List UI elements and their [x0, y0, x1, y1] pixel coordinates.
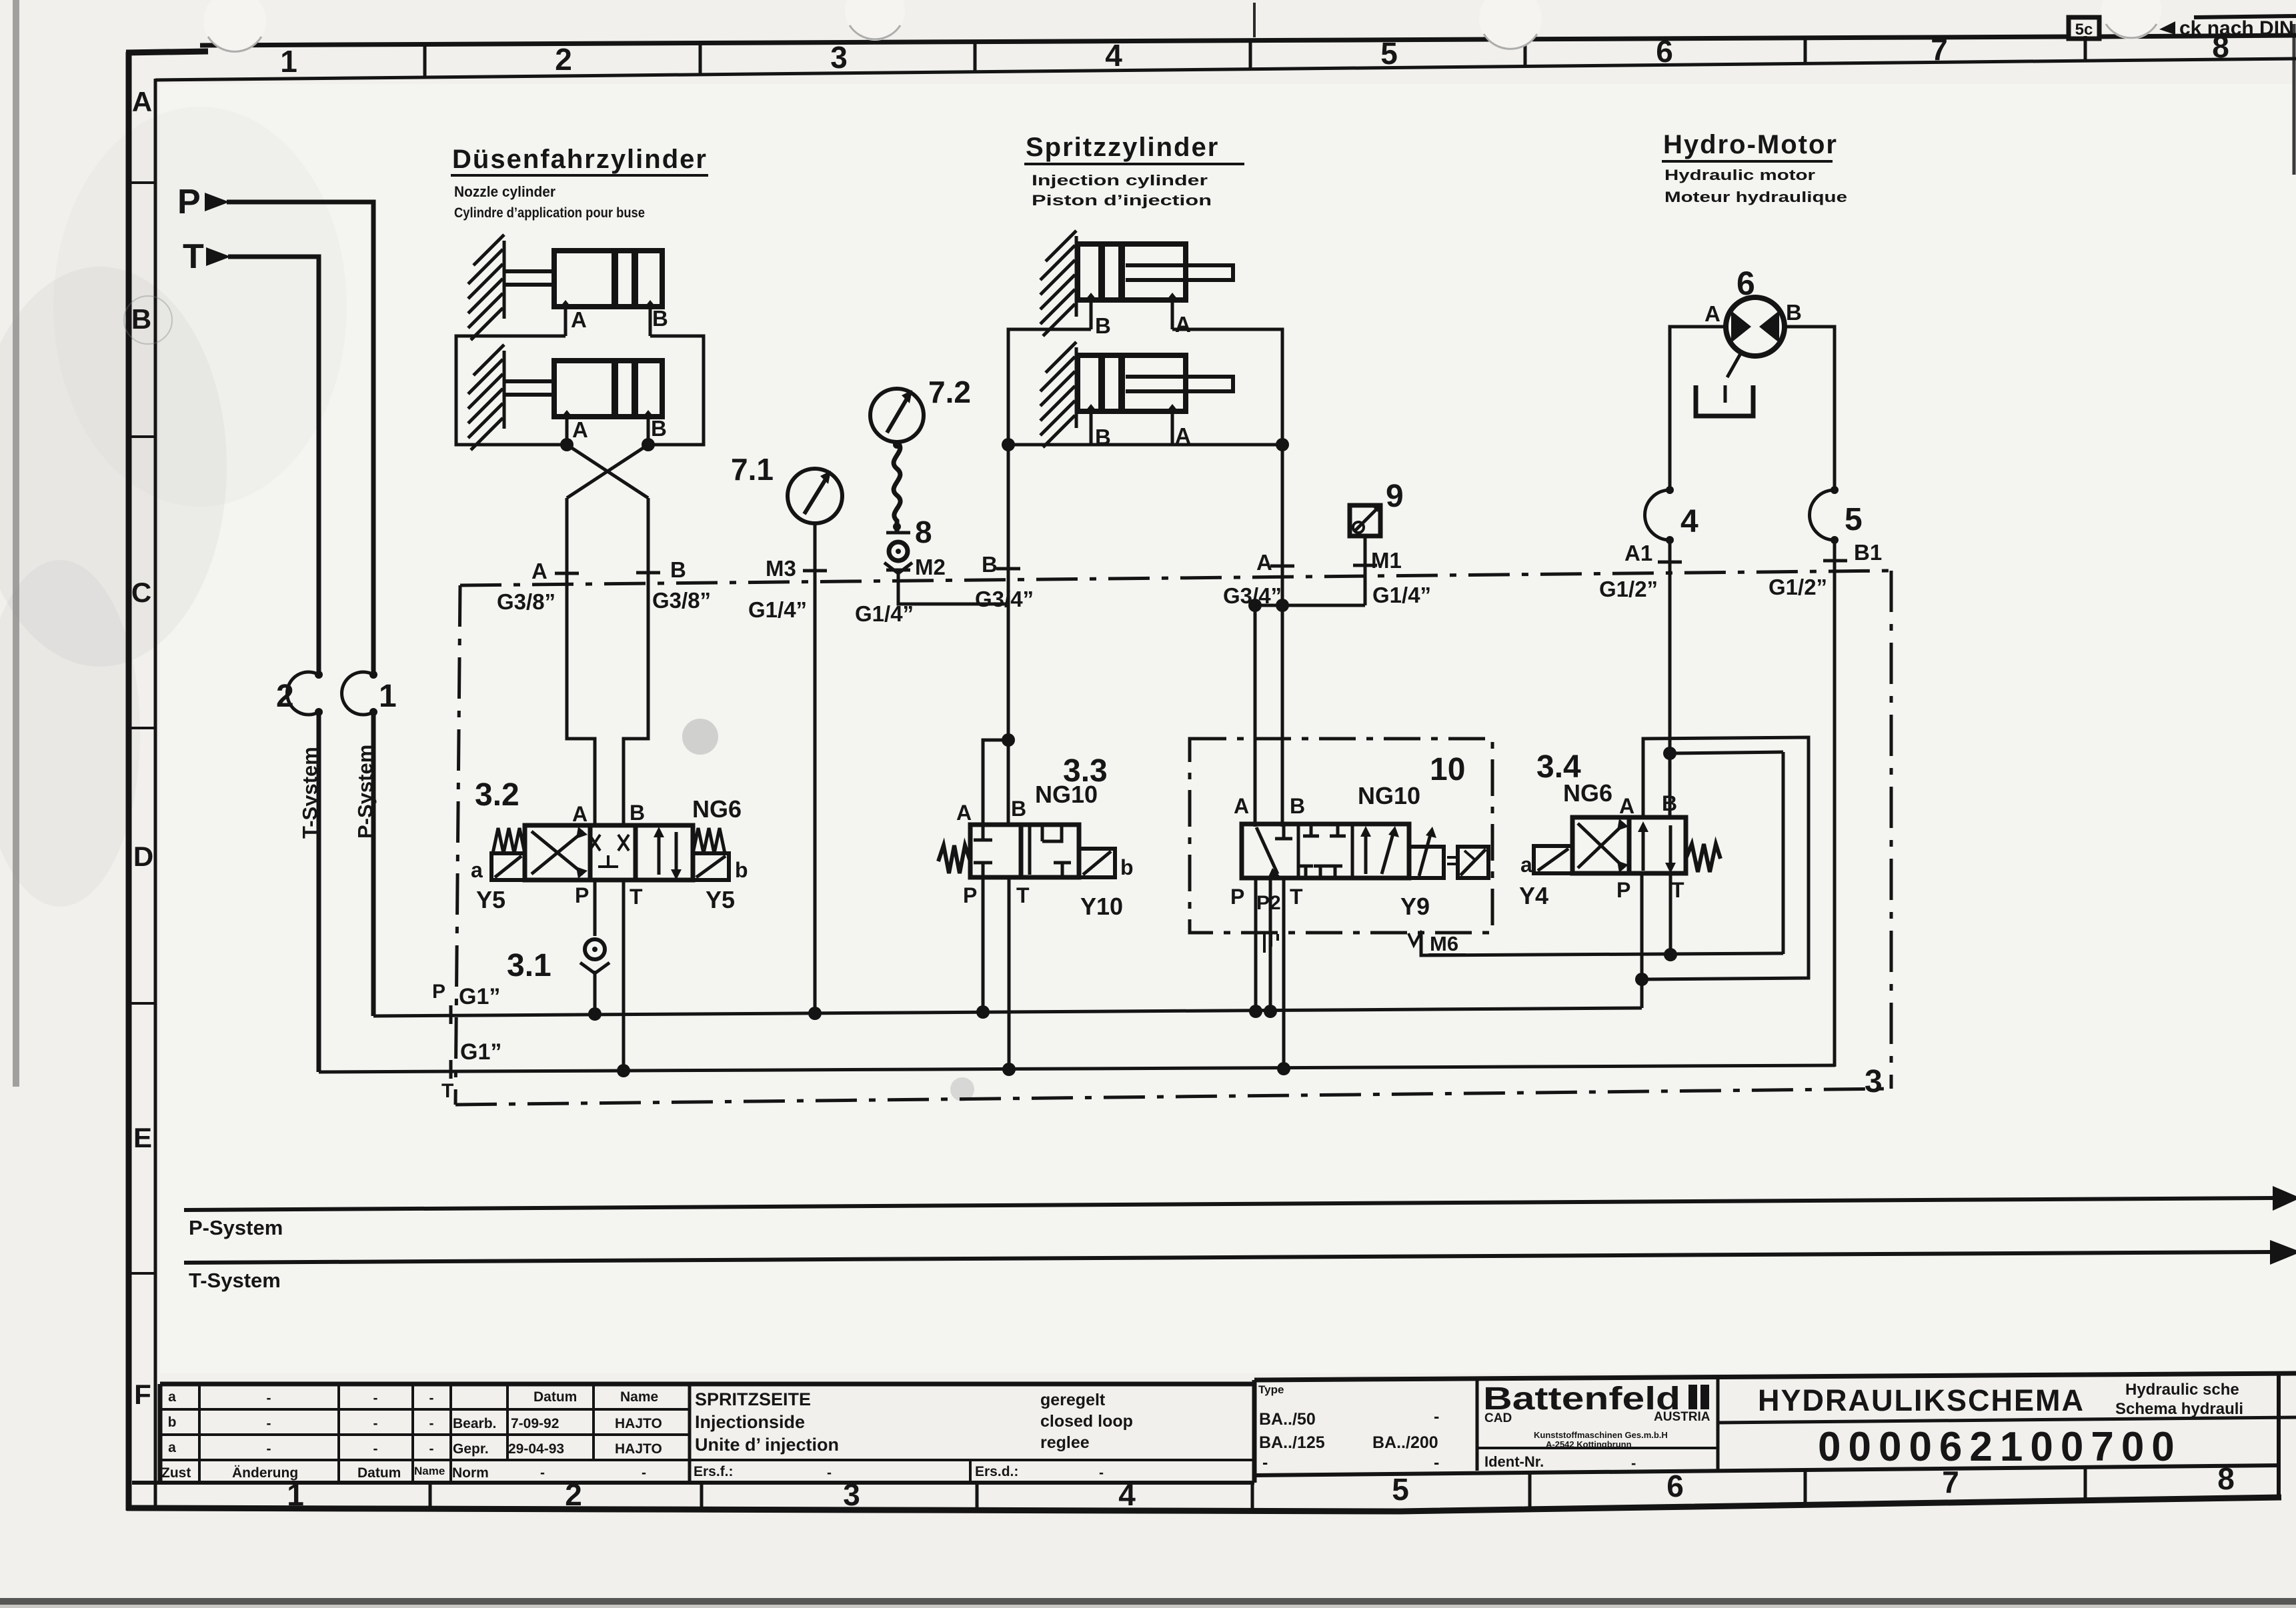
valve 10 dash-dot enclosure — [1190, 739, 1492, 933]
valve 3.3 body — [970, 825, 1021, 877]
svg-text:10: 10 — [1430, 752, 1465, 787]
wire loop A1 to feedback line — [1670, 752, 1783, 753]
5c box top right — [2069, 17, 2099, 39]
svg-text:3: 3 — [1865, 1064, 1883, 1099]
motor drain line — [1727, 351, 1742, 377]
wire riser B G3/4 down to valve 3.3 — [1007, 445, 1010, 740]
svg-text:2: 2 — [565, 1477, 582, 1512]
svg-text:5c: 5c — [2075, 21, 2093, 39]
injection cylinder 1 wall anchor — [1040, 231, 1076, 336]
valve 3.2 spring left — [493, 828, 525, 853]
manifold boundary left edge — [455, 585, 460, 1105]
gray scanner smudges — [0, 267, 227, 667]
valve 3.2 right cell arrows — [658, 832, 661, 875]
nozzle cylinder 1 barrel — [554, 251, 662, 307]
svg-text:G1/4”: G1/4” — [748, 597, 807, 622]
svg-text:HAJTO: HAJTO — [615, 1416, 662, 1431]
brighter drawing area — [160, 84, 2296, 1373]
wire T arrow to corner — [228, 257, 319, 673]
frame right vertical (title block area) — [2277, 1375, 2281, 1499]
svg-text:A1: A1 — [1624, 541, 1652, 565]
svg-text:T-System: T-System — [298, 747, 321, 839]
left table texts — [161, 1389, 1104, 1481]
svg-text:B: B — [1290, 794, 1305, 818]
svg-text:A: A — [132, 86, 152, 117]
svg-text:P2: P2 — [1256, 892, 1281, 914]
svg-text:A: A — [1175, 312, 1191, 337]
svg-text:3: 3 — [843, 1477, 860, 1512]
svg-text:B: B — [982, 552, 998, 577]
wire riser A G3/8 — [567, 498, 595, 827]
svg-text:CAD: CAD — [1484, 1411, 1512, 1425]
title block bottom lines — [132, 1481, 1254, 1485]
nozzle cylinder 2 port notches — [561, 410, 572, 417]
wire check valve to P line — [594, 971, 597, 1014]
svg-text:-: - — [1631, 1455, 1636, 1471]
svg-text:HYDRAULIKSCHEMA: HYDRAULIKSCHEMA — [1758, 1383, 2085, 1417]
valve 3.4 left cell crossed arrows — [1578, 823, 1624, 868]
valve 3.2 solenoid a — [491, 853, 525, 880]
svg-text:-: - — [827, 1465, 832, 1481]
svg-text:8: 8 — [2217, 1461, 2235, 1496]
svg-text:Kunststoffmaschinen Ges.m.b.H: Kunststoffmaschinen Ges.m.b.H — [1534, 1430, 1668, 1440]
wire to valve 3.3 B port — [1007, 740, 1010, 827]
junction node B-net left — [1002, 438, 1015, 451]
svg-text:7.2: 7.2 — [928, 375, 971, 409]
svg-text:T: T — [183, 237, 204, 276]
port tick M2 G1/4 — [886, 569, 910, 572]
svg-text:G1/4”: G1/4” — [1372, 583, 1431, 607]
svg-text:Datum: Datum — [357, 1465, 401, 1481]
port tick B1 G1/2 — [1823, 559, 1847, 563]
svg-text:3.1: 3.1 — [507, 948, 551, 983]
svg-text:G1/2”: G1/2” — [1769, 575, 1827, 599]
wire cyl1 B down — [649, 307, 652, 336]
svg-text:6: 6 — [1666, 1469, 1684, 1503]
wire valve 3.4 T down to M6 line — [1669, 873, 1672, 955]
svg-text:-: - — [642, 1465, 646, 1481]
svg-text:a: a — [471, 858, 483, 882]
port tick B G3/8 — [636, 571, 660, 575]
svg-text:-: - — [267, 1416, 271, 1431]
nozzle cylinder 1 piston — [612, 253, 618, 305]
svg-text:5: 5 — [1845, 502, 1863, 537]
svg-text:-: - — [429, 1391, 434, 1406]
svg-text:P: P — [1230, 885, 1244, 909]
hose break 1 on P line — [342, 672, 373, 715]
injection cylinder 2 port notches — [1086, 404, 1096, 411]
injection cylinder 2 wall anchor — [1040, 342, 1076, 447]
svg-text:4: 4 — [1680, 504, 1698, 539]
nozzle cylinder 2 piston rod — [504, 379, 555, 383]
wire valve 10 T to T line — [1282, 878, 1286, 1069]
svg-text:A-2542 Kottingbrunn: A-2542 Kottingbrunn — [1546, 1439, 1632, 1449]
svg-text:B: B — [131, 303, 151, 335]
svg-text:5: 5 — [1380, 36, 1398, 71]
svg-text:Hydraulic sche: Hydraulic sche — [2125, 1381, 2239, 1399]
svg-text:closed loop: closed loop — [1040, 1412, 1133, 1431]
svg-text:a: a — [168, 1440, 176, 1455]
gauge 7.1 — [788, 469, 842, 523]
svg-text:Hydro-Motor: Hydro-Motor — [1663, 130, 1838, 159]
svg-text:2: 2 — [555, 42, 572, 77]
bottom paper edge — [0, 1598, 2296, 1605]
svg-text:ck nach DIN: ck nach DIN — [2179, 17, 2294, 39]
gauge 7.2 — [870, 389, 924, 442]
svg-text:reglee: reglee — [1040, 1433, 1090, 1452]
fold mark top middle — [1253, 3, 1256, 37]
svg-text:4: 4 — [1105, 38, 1122, 73]
valve 10 feedback box — [1458, 847, 1488, 878]
wire item 9 stub to M1 — [1364, 536, 1367, 605]
svg-text:-: - — [1434, 1453, 1439, 1472]
junction node split to valve 3.3 A — [1002, 733, 1015, 747]
wire T line down — [317, 712, 321, 1072]
injection cylinder 2 barrel — [1078, 355, 1186, 411]
svg-text:1: 1 — [280, 44, 297, 79]
svg-text:7: 7 — [1931, 32, 1948, 67]
injection cylinder 1 barrel — [1078, 244, 1186, 300]
svg-text:B: B — [630, 801, 645, 825]
port tick A G3/8 — [555, 572, 579, 575]
svg-text:G3/8”: G3/8” — [652, 588, 711, 613]
wire crossing X below nozzle cylinders — [567, 445, 648, 498]
svg-text:A: A — [1704, 301, 1720, 326]
injection cylinder 2 piston — [1098, 357, 1105, 409]
svg-text:AUSTRIA: AUSTRIA — [1654, 1410, 1710, 1424]
svg-text:b: b — [1120, 855, 1134, 879]
wire valve10 A vertical — [1254, 605, 1257, 827]
valve 3.4 body — [1572, 817, 1629, 873]
svg-text:B: B — [1786, 300, 1802, 325]
P arrow — [205, 193, 229, 211]
hose break 2 on T line — [287, 672, 319, 715]
svg-text:NG10: NG10 — [1035, 781, 1098, 808]
injection cylinder 1 port notches — [1086, 293, 1096, 299]
wire B-net loop right — [650, 336, 704, 445]
svg-text:T: T — [441, 1080, 453, 1102]
coupling 8 ball — [889, 542, 908, 561]
svg-text:a: a — [168, 1389, 176, 1405]
port tick A G3/4 — [1270, 565, 1294, 568]
valve 3.2 center cell blocked symbols — [590, 835, 600, 851]
drain funnel — [1696, 385, 1753, 416]
svg-text:geregelt: geregelt — [1040, 1391, 1106, 1409]
svg-text:-: - — [1434, 1407, 1439, 1426]
outer frame left vertical — [126, 52, 132, 1511]
valve 3.2 body — [525, 825, 590, 880]
svg-text:D: D — [133, 841, 153, 872]
wire cyl2 A down — [565, 417, 569, 445]
nozzle cylinder 1 piston rod — [504, 269, 555, 273]
wire valve 3.2 T down to T line — [622, 880, 626, 1071]
top ruler band top line — [200, 37, 2070, 45]
T-System line — [184, 1252, 2271, 1263]
hydro motor circle item 6 — [1726, 297, 1785, 356]
svg-text:G3/4”: G3/4” — [975, 587, 1034, 611]
svg-text:-: - — [373, 1391, 378, 1406]
svg-text:P: P — [432, 981, 445, 1003]
svg-text:Unite d’ injection: Unite d’ injection — [695, 1435, 839, 1455]
svg-text:6: 6 — [1656, 34, 1673, 69]
svg-text:b: b — [168, 1415, 177, 1430]
port tick M3 G1/4 — [803, 569, 827, 573]
svg-text:Spritzzylinder: Spritzzylinder — [1026, 133, 1219, 162]
valve 10 body — [1242, 824, 1409, 878]
svg-text:BA../125: BA../125 — [1259, 1433, 1325, 1452]
svg-text:1: 1 — [379, 679, 397, 714]
left letter band letters — [131, 86, 153, 1410]
wire P arrow to corner — [227, 202, 373, 673]
svg-text:B: B — [1011, 797, 1026, 821]
svg-text:A: A — [1619, 794, 1634, 818]
svg-text:8: 8 — [915, 515, 932, 549]
svg-text:-: - — [540, 1465, 545, 1481]
top ruler cell dividers — [425, 36, 2085, 77]
valve 3.3 right cell internals — [1028, 825, 1032, 875]
nozzle cylinder 2 wall anchor — [468, 345, 504, 450]
valve 10 left cell diagonal — [1256, 827, 1278, 874]
T G1 port tick — [449, 1060, 453, 1079]
injection cylinder 1 piston — [1098, 246, 1105, 298]
wire icyl2 B down — [1090, 411, 1093, 445]
svg-text:Nozzle cylinder: Nozzle cylinder — [454, 183, 555, 200]
svg-text:T: T — [1016, 883, 1030, 907]
svg-text:Ident-Nr.: Ident-Nr. — [1484, 1453, 1544, 1470]
wire M1 to A-net horizontal — [1255, 604, 1365, 607]
manifold boundary top line — [460, 571, 1891, 585]
svg-text:9: 9 — [1386, 479, 1404, 514]
svg-text:Ers.d.:: Ers.d.: — [975, 1464, 1018, 1479]
junction node A1 split — [1663, 747, 1676, 760]
outer frame bottom line — [127, 1497, 2281, 1511]
svg-text:Type: Type — [1258, 1383, 1284, 1396]
junction node A riser — [1276, 599, 1289, 612]
svg-text:G1”: G1” — [459, 984, 500, 1009]
svg-text:Y10: Y10 — [1080, 893, 1123, 920]
svg-text:-: - — [1262, 1453, 1268, 1472]
valve 3.2 left cell crossed arrows — [531, 831, 584, 874]
svg-text:M2: M2 — [915, 555, 946, 579]
svg-text:4: 4 — [1118, 1477, 1136, 1512]
wire A-net loop left — [456, 336, 565, 445]
svg-text:C: C — [131, 577, 151, 608]
svg-text:T: T — [630, 885, 643, 909]
title block outer borders — [160, 1382, 1254, 1387]
svg-text:-: - — [267, 1441, 271, 1457]
junction node gauge 7.1 on P line — [808, 1007, 822, 1020]
nozzle cylinder 2 piston — [612, 363, 618, 415]
svg-text:29-04-93: 29-04-93 — [508, 1441, 564, 1457]
valve 3.4 solenoid a — [1534, 846, 1572, 873]
svg-text:Zust: Zust — [161, 1465, 191, 1481]
svg-text:M6: M6 — [1430, 932, 1458, 955]
svg-text:P: P — [1616, 878, 1630, 902]
svg-text:-: - — [429, 1441, 434, 1457]
wire motor A side — [1670, 327, 1727, 489]
port tick B G3/4 — [996, 567, 1020, 571]
svg-text:7-09-92: 7-09-92 — [511, 1416, 559, 1431]
wire A-net loop right — [1172, 329, 1282, 445]
svg-text:3.2: 3.2 — [475, 777, 519, 813]
svg-text:Gepr.: Gepr. — [453, 1441, 489, 1457]
wire bottom bus of injection loop — [1008, 443, 1282, 447]
DIN stamp top right — [2194, 16, 2296, 17]
left table row lines — [160, 1408, 690, 1411]
svg-text:Moteur hydraulique: Moteur hydraulique — [1664, 189, 1847, 205]
svg-text:BA../200: BA../200 — [1372, 1433, 1438, 1452]
svg-text:F: F — [134, 1379, 151, 1410]
svg-text:A: A — [1234, 794, 1249, 818]
svg-text:M3: M3 — [766, 556, 796, 581]
svg-text:A: A — [571, 307, 587, 332]
nozzle cylinder 1 wall anchor — [468, 235, 504, 340]
wire valve 10 P to P line — [1254, 878, 1258, 1011]
port tick M1 G1/4 — [1353, 564, 1377, 567]
wire A1 riser down — [1668, 540, 1672, 819]
svg-text:Injection cylinder: Injection cylinder — [1032, 172, 1208, 189]
P-System line — [184, 1198, 2274, 1210]
port tick A1 G1/2 — [1658, 561, 1682, 564]
T G1 manifold line — [319, 1065, 1835, 1072]
P G1 port tick — [449, 1005, 453, 1024]
manifold boundary right edge — [1890, 571, 1893, 1089]
Ers divider — [969, 1460, 972, 1483]
wire B1 riser down to T line — [1833, 540, 1837, 1067]
svg-text:5: 5 — [1392, 1472, 1409, 1507]
svg-text:B: B — [652, 306, 668, 331]
wire valve 3.3 T down to T line — [1008, 877, 1011, 1069]
left letter band row dividers — [129, 183, 155, 1273]
left paper edge shadow — [13, 0, 19, 1087]
injection cylinder 2 piston rod — [1126, 377, 1233, 391]
svg-text:P: P — [963, 883, 977, 907]
coupling 8 tick — [886, 531, 910, 535]
T arrow — [206, 247, 231, 266]
svg-text:G1/2”: G1/2” — [1599, 577, 1658, 601]
svg-text:P: P — [177, 183, 201, 221]
svg-text:P-System: P-System — [189, 1216, 283, 1239]
top ruler numbers — [280, 29, 2229, 79]
svg-text:Düsenfahrzylinder: Düsenfahrzylinder — [452, 145, 708, 174]
valve 10 proportional solenoid — [1409, 847, 1444, 878]
wire icyl2 A down — [1171, 411, 1174, 445]
svg-text:Schema hydrauli: Schema hydrauli — [2115, 1400, 2243, 1418]
wire icyl1 A down — [1171, 300, 1174, 329]
svg-text:G1”: G1” — [460, 1039, 501, 1065]
svg-text:-: - — [1099, 1465, 1104, 1481]
svg-text:-: - — [267, 1391, 271, 1406]
svg-text:Hydraulic motor: Hydraulic motor — [1664, 167, 1816, 183]
wire motor B side — [1784, 327, 1835, 489]
svg-text:Y4: Y4 — [1519, 882, 1548, 909]
right part boxes — [1476, 1379, 1479, 1471]
valve 10 center cell blocked stubs — [1310, 824, 1313, 836]
svg-text:T: T — [1671, 878, 1684, 902]
svg-text:B: B — [651, 416, 667, 441]
P G1 manifold line — [373, 1008, 1642, 1016]
svg-text:Battenfeld: Battenfeld — [1483, 1381, 1680, 1417]
svg-text:T-System: T-System — [189, 1269, 281, 1292]
injection cylinder 1 piston rod — [1126, 265, 1233, 280]
wire valve 3.4 P down to P line junction — [1640, 873, 1644, 1008]
left table column lines — [198, 1384, 201, 1483]
junction node B-net — [642, 438, 655, 451]
valve 3.3 left cell blocked stubs — [982, 825, 985, 840]
svg-text:A: A — [956, 801, 972, 825]
hose break 4 — [1645, 490, 1670, 540]
svg-text:NG6: NG6 — [692, 795, 742, 823]
svg-text:A: A — [572, 802, 588, 826]
svg-text:Y9: Y9 — [1400, 893, 1430, 920]
junction node A-net right — [1276, 438, 1289, 451]
svg-text:HAJTO: HAJTO — [615, 1441, 662, 1457]
svg-text:B: B — [1662, 791, 1677, 815]
svg-text:Y5: Y5 — [476, 886, 505, 913]
outer frame top-left corner piece — [126, 51, 208, 53]
inner frame top line (ruler band bottom) — [155, 59, 2296, 80]
wire valve 3.2 P down — [594, 880, 597, 936]
svg-text:B: B — [670, 557, 686, 582]
svg-text:NG6: NG6 — [1563, 779, 1612, 807]
nozzle cylinder 1 port notches — [560, 300, 571, 307]
svg-text:A: A — [1256, 550, 1272, 575]
inner frame left vertical — [154, 79, 157, 1508]
wire valve 10 P2 to P line — [1269, 878, 1272, 1011]
junction node A-net — [560, 438, 573, 451]
svg-text:T: T — [1290, 885, 1303, 909]
svg-text:1: 1 — [287, 1477, 304, 1512]
svg-text:Norm: Norm — [452, 1465, 489, 1481]
svg-text:E: E — [133, 1122, 152, 1153]
svg-text:Cylindre d’application pour bu: Cylindre d’application pour buse — [454, 205, 645, 221]
svg-text:b: b — [735, 858, 748, 882]
svg-text:Name: Name — [414, 1465, 445, 1477]
svg-text:-: - — [429, 1416, 434, 1431]
svg-text:Datum: Datum — [533, 1389, 577, 1405]
wire jog to valve 3.3 A port — [983, 740, 1008, 827]
wire riser B G3/8 — [624, 498, 648, 827]
wire loop P to valve 3.4 A port — [1642, 737, 1809, 979]
wire cyl2 B down — [647, 417, 650, 445]
svg-text:-: - — [373, 1441, 378, 1457]
svg-text:SPRITZSEITE: SPRITZSEITE — [695, 1389, 811, 1409]
valve 3.3 spring left — [938, 845, 970, 873]
svg-text:M1: M1 — [1371, 548, 1402, 573]
svg-text:B: B — [1095, 313, 1111, 338]
hose gauge 7.2 to coupling 8 — [894, 442, 900, 531]
svg-text:6: 6 — [1737, 265, 1755, 302]
wire gauge 7.1 riser to P line — [814, 523, 817, 1013]
svg-text:7: 7 — [1942, 1465, 1959, 1499]
wire B-net loop left — [1008, 329, 1091, 445]
valve 10 drain marks — [1263, 934, 1266, 953]
svg-text:G3/8”: G3/8” — [497, 589, 555, 614]
valve 3.3 solenoid b — [1079, 849, 1115, 877]
svg-text:A: A — [572, 417, 588, 442]
wire P line down to G1 corner — [371, 712, 376, 1016]
faint ring around letter B — [124, 296, 172, 344]
wire valve 3.3 P down to P line — [982, 877, 985, 1012]
svg-text:2: 2 — [276, 679, 294, 714]
svg-text:NG10: NG10 — [1358, 782, 1420, 809]
nozzle cylinder 2 barrel — [554, 361, 662, 417]
svg-text:Name: Name — [620, 1389, 658, 1405]
svg-text:A: A — [531, 559, 547, 583]
svg-text:BA../50: BA../50 — [1259, 1410, 1316, 1429]
valve 3.2 solenoid b — [693, 853, 729, 880]
manifold boundary bottom line — [455, 1089, 1891, 1105]
